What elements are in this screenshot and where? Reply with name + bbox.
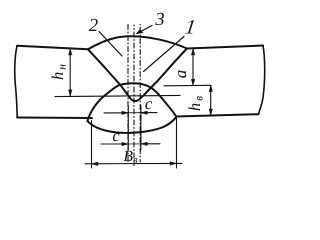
dimension B_v right arrowhead: [170, 162, 177, 165]
electrode axis dash-dot line left: [127, 25, 129, 163]
root overlap c extension line left: [127, 106, 129, 151]
top weld groove outline: [88, 49, 187, 102]
dimension B_v extension line right: [176, 118, 178, 168]
leader 3 arrowhead: [136, 30, 143, 34]
dimension c (lower) left arrowhead: [122, 142, 129, 145]
svg-text:2: 2: [89, 16, 98, 36]
right plate bottom edge: [177, 114, 259, 116]
root overlap c extension line right: [140, 106, 142, 151]
dimension B_v extension line left: [91, 121, 93, 169]
dimension c (upper) left arrowhead: [122, 111, 129, 114]
dimension c (lower) middle faint segment: [128, 143, 141, 145]
dimension B_v left arrowhead: [92, 162, 99, 165]
dimension a bottom arrowhead: [191, 79, 194, 85]
svg-text:с: с: [145, 94, 153, 113]
svg-text:а: а: [171, 70, 190, 79]
dimension h_n top arrowhead: [69, 49, 72, 55]
left plate bottom edge: [17, 117, 92, 120]
dimension c (upper) right segment: [141, 112, 157, 114]
svg-text:hв: hв: [185, 94, 206, 111]
leader line for label 2: [99, 32, 122, 57]
dimension h_v bottom arrowhead: [209, 109, 212, 115]
svg-text:Вв: Вв: [124, 148, 138, 166]
dimension a top arrowhead: [191, 49, 194, 55]
dimension c (upper) right arrowhead: [141, 111, 148, 114]
dimension h_n line: [69, 49, 71, 96]
right plate top edge: [187, 46, 263, 49]
dimension h_v line: [210, 86, 212, 116]
dimension c (lower) right segment: [141, 143, 160, 145]
electrode axis dash-dot line middle: [133, 25, 135, 166]
bottom weld bead lower outline: [88, 117, 177, 133]
svg-text:1: 1: [184, 17, 197, 39]
top weld cap arc: [88, 36, 187, 49]
electrode axis dash-dot line right: [139, 25, 141, 163]
leader line for label 1: [144, 37, 185, 72]
dimension a line: [192, 49, 194, 86]
penetration depth reference line (h_n level): [55, 95, 180, 96]
dimension h_v top arrowhead: [209, 85, 212, 91]
left plate top edge: [17, 46, 88, 50]
dimension h_n bottom arrowhead: [69, 90, 72, 96]
dimension c (lower) left segment: [101, 143, 128, 145]
dimension c (upper) middle faint segment: [128, 112, 141, 114]
leader line for label 3: [138, 26, 153, 34]
left plate left break edge: [15, 46, 17, 118]
svg-text:hн: hн: [48, 62, 69, 80]
root apex reference line (a / h_v level): [164, 84, 211, 87]
svg-text:с: с: [112, 126, 120, 145]
svg-text:3: 3: [154, 10, 164, 30]
dimension c (upper) left segment: [104, 112, 128, 114]
bottom weld nugget upper outline: [88, 83, 177, 121]
right plate right break edge: [259, 46, 265, 115]
dimension B_v line: [85, 162, 182, 164]
dimension c (lower) right arrowhead: [141, 142, 148, 145]
